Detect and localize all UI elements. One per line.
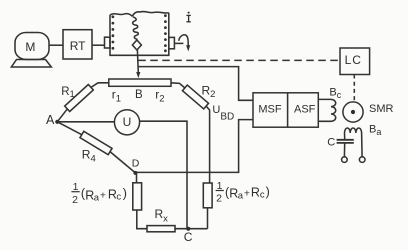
svg-text:D: D xyxy=(132,157,140,169)
resistor R2 xyxy=(182,85,208,109)
wire D to MSF input xyxy=(135,120,253,173)
svg-text:A: A xyxy=(46,113,55,127)
motor M xyxy=(11,33,51,68)
thermocouple wiggle wire xyxy=(133,17,139,40)
voltmeter U xyxy=(114,110,139,135)
thermocouple diamond junction xyxy=(132,40,141,50)
slide wire resistor xyxy=(109,79,171,86)
label half(Ra+Rc) right xyxy=(216,180,270,205)
furnace heater dots left xyxy=(112,15,115,49)
resistor half(Ra+Rc) right xyxy=(203,183,212,208)
resistor half(Ra+Rc) left xyxy=(133,183,142,210)
node A xyxy=(55,120,59,124)
svg-text:C: C xyxy=(327,136,335,148)
wires ASF to coil Bc xyxy=(318,99,331,121)
coil Bc xyxy=(331,99,336,121)
wire coil right leg xyxy=(361,133,364,157)
wire slide wire to R1 xyxy=(91,83,109,88)
box LC xyxy=(340,48,370,75)
fraction bar left xyxy=(71,191,79,193)
terminal right xyxy=(359,157,365,163)
wire right resistor to rail xyxy=(207,208,209,229)
furnace heater dots right xyxy=(164,14,167,52)
wiper arrowhead xyxy=(136,72,140,78)
wire right stub xyxy=(174,42,183,44)
wire R4 to D xyxy=(110,152,135,173)
svg-text:c: c xyxy=(260,190,265,201)
wire M to RT xyxy=(49,44,63,46)
wire slide wire to R2 xyxy=(171,83,185,89)
svg-text:c: c xyxy=(116,192,121,203)
svg-text:MSF: MSF xyxy=(258,104,282,116)
terminal left xyxy=(342,157,348,163)
fraction bar right xyxy=(216,190,224,192)
coil Ba xyxy=(345,128,362,133)
resistor R4 xyxy=(80,131,112,154)
wiper wire from diamond xyxy=(136,50,139,73)
resistor R1 xyxy=(65,84,94,111)
wire B to MSF input xyxy=(138,67,253,101)
svg-text:a: a xyxy=(94,193,100,204)
svg-text:a: a xyxy=(238,191,244,202)
wire voltmeter to C xyxy=(140,121,187,229)
svg-text:RT: RT xyxy=(70,39,86,53)
svg-text:): ) xyxy=(266,185,270,199)
svg-text:U: U xyxy=(123,115,132,129)
svg-text:): ) xyxy=(123,187,127,201)
node D xyxy=(133,171,137,175)
svg-text:B: B xyxy=(135,89,143,101)
furnace left stub xyxy=(105,37,111,48)
dashed wire LC to SMR xyxy=(353,75,355,101)
svg-text:R: R xyxy=(251,186,260,200)
svg-text:2: 2 xyxy=(72,194,78,206)
wire D down xyxy=(136,173,138,183)
wire capacitor to terminal xyxy=(343,143,345,157)
rotation arrow xyxy=(179,35,190,52)
box RT xyxy=(63,30,92,59)
wire RT to furnace xyxy=(92,44,105,46)
svg-text:LC: LC xyxy=(345,53,362,67)
svg-text:C: C xyxy=(184,230,193,244)
wire A to voltmeter xyxy=(57,121,114,123)
svg-text:M: M xyxy=(25,40,35,54)
svg-text:SMR: SMR xyxy=(369,103,394,115)
label I-dot (current) xyxy=(186,12,190,22)
wire A to R4 xyxy=(57,122,82,135)
svg-text:ASF: ASF xyxy=(294,104,316,116)
dash-dot line to LC xyxy=(138,59,340,61)
furnace body xyxy=(110,12,169,56)
svg-text:+: + xyxy=(244,187,250,199)
svg-text:2: 2 xyxy=(216,192,222,204)
node C xyxy=(186,227,190,231)
capacitor C plates xyxy=(337,140,354,143)
bottom rail to C xyxy=(175,228,208,230)
motor SMR xyxy=(343,102,363,122)
wire R1 to A xyxy=(57,109,67,122)
resistor Rx xyxy=(147,226,175,232)
box MSF ASF xyxy=(253,93,318,127)
wire left resistor to rail xyxy=(137,210,147,229)
svg-text:+: + xyxy=(100,189,106,201)
furnace right stub xyxy=(169,37,175,48)
wire coil left leg xyxy=(344,133,346,140)
wire R2 down xyxy=(206,106,210,183)
label half(Ra+Rc) left xyxy=(72,181,127,206)
